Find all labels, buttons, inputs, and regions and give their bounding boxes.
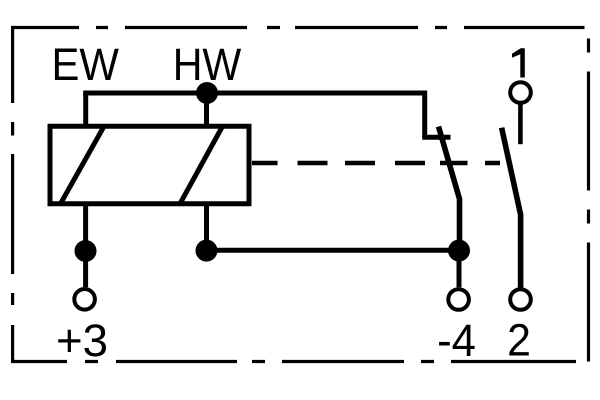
terminal circle 2 <box>510 289 531 310</box>
wire to fixed contact <box>422 91 427 138</box>
wire EW top riser <box>83 93 88 126</box>
wire top bus <box>83 91 425 96</box>
svg-text:-4: -4 <box>437 315 476 366</box>
wire from terminal 1 <box>518 104 523 144</box>
wire EW bottom lead <box>83 204 88 288</box>
switch armature 1-2 <box>502 128 521 289</box>
winding EW diagonal <box>61 126 105 203</box>
svg-text:EW: EW <box>52 39 120 90</box>
node HW <box>196 82 218 104</box>
coil box <box>50 126 249 203</box>
fixed contact tick <box>422 135 450 140</box>
winding HW diagonal <box>180 126 223 203</box>
label terminal 1 <box>512 48 525 77</box>
svg-text:2: 2 <box>507 315 531 366</box>
wire bottom bus <box>207 248 460 253</box>
node -4 <box>448 240 470 262</box>
node EW-3 <box>75 240 97 262</box>
terminal circle -4 <box>448 289 469 310</box>
wire -4 lead <box>457 250 462 287</box>
node HW-4 <box>196 240 218 262</box>
mechanical linkage dashed line <box>252 161 500 166</box>
wire HW bottom stub <box>204 204 209 251</box>
terminal circle 1 <box>510 82 531 103</box>
switch armature to -4 <box>439 127 460 253</box>
terminal circle +3 <box>74 289 95 310</box>
wire HW top stub <box>204 93 209 126</box>
svg-text:+3: +3 <box>56 315 108 366</box>
